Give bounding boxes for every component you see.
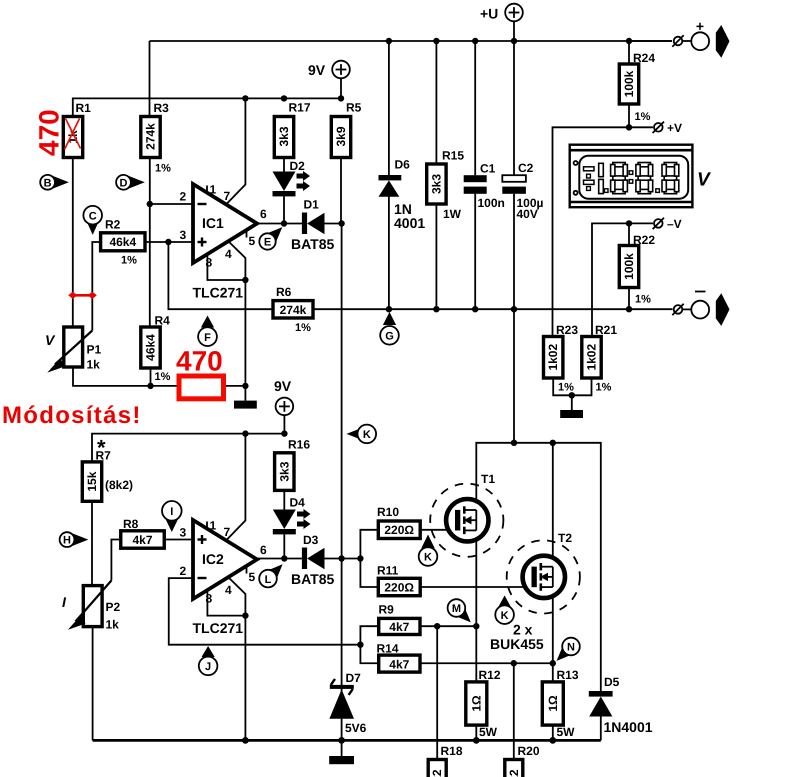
wire: 9V rail y=98.4 bbox=[73, 98, 341, 116]
node dot R10/R11 split bbox=[357, 555, 363, 561]
svg-text:R18: R18 bbox=[441, 744, 463, 758]
node dot minus rail at R15 bbox=[433, 306, 439, 312]
node K at T2 gate bbox=[495, 596, 514, 625]
diode D1 BAT85 bbox=[291, 198, 335, 253]
svg-text:(8k2): (8k2) bbox=[105, 478, 133, 492]
svg-text:40V: 40V bbox=[517, 207, 538, 221]
ground (D7) bbox=[329, 740, 354, 764]
bottom source rail bbox=[93, 739, 601, 742]
svg-text:V: V bbox=[697, 170, 711, 191]
svg-text:R10: R10 bbox=[377, 505, 399, 519]
svg-text:220Ω: 220Ω bbox=[384, 581, 414, 595]
svg-text:1%: 1% bbox=[635, 111, 651, 123]
svg-text:C1: C1 bbox=[480, 162, 496, 176]
wire: D2 bottom to output bbox=[283, 196, 285, 224]
capacitor C2 bbox=[502, 161, 543, 221]
svg-text:2: 2 bbox=[180, 190, 187, 204]
svg-text:D7: D7 bbox=[346, 671, 362, 685]
node dot rail at D7 bbox=[338, 737, 345, 744]
svg-text:F: F bbox=[204, 332, 211, 344]
node dot R9/R14 split bbox=[357, 642, 363, 648]
red note 470 vertical (over R1) bbox=[34, 109, 65, 156]
svg-text:4: 4 bbox=[225, 583, 232, 597]
node dot drain rail at +U line bbox=[511, 440, 517, 446]
svg-text:4001: 4001 bbox=[394, 215, 425, 231]
svg-text:Módosítás!: Módosítás! bbox=[2, 402, 142, 429]
red jumper wire (modification) bbox=[68, 292, 97, 299]
svg-text:5: 5 bbox=[249, 570, 256, 584]
node dot D1/R5/K-line bbox=[338, 220, 344, 226]
svg-text:1%: 1% bbox=[295, 322, 311, 334]
arrow - output bbox=[716, 293, 730, 326]
wire: R7 bottom to P2 bbox=[91, 501, 93, 585]
wire: R17 bottom to D2 bbox=[283, 157, 285, 172]
svg-text:1k: 1k bbox=[87, 358, 101, 372]
wire: C1 bottom bbox=[474, 194, 476, 309]
svg-text:R17: R17 bbox=[289, 101, 311, 115]
svg-text:1: 1 bbox=[210, 183, 217, 197]
svg-text:3k9: 3k9 bbox=[334, 126, 348, 146]
red X over R1 value bbox=[65, 119, 81, 150]
wire: R3 bottom to pin2 junction to R4 bbox=[149, 157, 151, 327]
resistor R9 bbox=[379, 603, 421, 635]
svg-text:E: E bbox=[264, 237, 271, 249]
node dot R9/R18 line bbox=[434, 623, 440, 629]
resistor R24 bbox=[619, 51, 655, 123]
svg-text:D1: D1 bbox=[304, 198, 320, 212]
svg-text:TLC271: TLC271 bbox=[193, 285, 244, 301]
wire: IC1 pin4 bbox=[229, 242, 246, 281]
svg-text:274k: 274k bbox=[144, 123, 158, 150]
svg-text:1k02: 1k02 bbox=[546, 344, 560, 371]
wire: IC2 output to D3 bbox=[257, 558, 302, 560]
wire: minus rail y=309.2 bbox=[313, 308, 673, 310]
node dot -V bbox=[626, 220, 632, 226]
resistor R8 bbox=[121, 517, 165, 548]
wire: plus output stub bbox=[629, 40, 672, 42]
svg-text:–V: –V bbox=[667, 217, 682, 231]
svg-text:470: 470 bbox=[34, 109, 65, 156]
svg-text:C: C bbox=[89, 210, 97, 222]
resistor R22 bbox=[619, 233, 655, 306]
display digit 8 #1 bbox=[611, 163, 628, 194]
terminal - big circle bbox=[691, 292, 709, 319]
node L bbox=[259, 564, 282, 587]
wire: pins8-4 down to ground junction bbox=[244, 280, 246, 386]
resistor R7 bbox=[82, 435, 133, 501]
svg-text:4k7: 4k7 bbox=[389, 657, 409, 671]
transistor T1 BUK455 bbox=[430, 472, 503, 557]
wire: R8 left to P2 wiper bbox=[111, 540, 120, 581]
wire: P2 bottom down left side bbox=[92, 627, 94, 741]
resistor R21 bbox=[582, 323, 618, 394]
svg-text:G: G bbox=[385, 331, 394, 343]
node dot drain rail at T2 bbox=[550, 440, 556, 446]
svg-text:15k: 15k bbox=[85, 471, 99, 491]
node D bbox=[116, 175, 145, 190]
resistor R6 bbox=[273, 285, 313, 334]
node dot IC2 pins 8-4 bbox=[242, 612, 248, 618]
wire: split up to R9 bbox=[360, 626, 378, 645]
wire: R15 bottom bbox=[435, 204, 437, 309]
wire: IC2 pins8-4 down to bottom rail bbox=[244, 616, 246, 741]
node dot rail at IC2 pin7 bbox=[242, 430, 248, 436]
svg-text:R8: R8 bbox=[123, 517, 139, 531]
wire: R22 top bbox=[628, 223, 630, 245]
svg-text:4: 4 bbox=[225, 247, 232, 261]
wire: +V run left and down to R23 bbox=[553, 127, 654, 336]
svg-text:2k2: 2k2 bbox=[507, 769, 521, 777]
terminal +V open circle bbox=[653, 121, 682, 135]
resistor R17 bbox=[274, 101, 311, 158]
wire: R2 left to P1 wiper via corner bbox=[92, 242, 100, 331]
op-amp IC1 bbox=[180, 183, 268, 301]
svg-text:P2: P2 bbox=[106, 600, 121, 614]
wire: +U top rail y=41 bbox=[150, 40, 673, 42]
svg-text:8: 8 bbox=[206, 256, 213, 270]
wire: K-line node to R10/R11 split bbox=[342, 558, 361, 560]
wire: R4 bottom stub bbox=[150, 368, 152, 386]
wire: R16 bottom to D4 bbox=[283, 490, 285, 509]
terminal -V open circle bbox=[653, 217, 682, 231]
svg-text:1%: 1% bbox=[155, 371, 171, 383]
wire: R18 drop line bbox=[436, 626, 438, 760]
svg-text:1%: 1% bbox=[121, 255, 137, 267]
svg-text:R2: R2 bbox=[105, 218, 121, 232]
resistor R5 bbox=[331, 101, 361, 158]
wire: D4 bottom to IC2 output bbox=[283, 534, 285, 558]
resistor R13 bbox=[542, 668, 579, 739]
svg-text:R6: R6 bbox=[276, 285, 292, 299]
svg-text:K: K bbox=[501, 610, 509, 622]
node dot IC1 output bbox=[281, 220, 287, 226]
wire: D5 bottom to rail bbox=[600, 717, 602, 741]
svg-text:BUK455: BUK455 bbox=[490, 636, 544, 652]
svg-text:R9: R9 bbox=[379, 603, 395, 617]
ground (R23/R21) bbox=[560, 395, 583, 418]
node N bbox=[557, 638, 580, 661]
svg-text:3k3: 3k3 bbox=[277, 461, 291, 481]
wire: IC2 pin8 bbox=[207, 590, 245, 616]
wire: R23 R21 bottoms to ground bbox=[553, 378, 591, 395]
node M bbox=[448, 599, 471, 622]
wire: D3 right to K-line node bbox=[325, 558, 342, 560]
wire: IC1 pin2 bbox=[150, 203, 193, 205]
display digit 8 #2 bbox=[636, 163, 653, 194]
LED D4 bbox=[273, 496, 311, 535]
terminal + open circle bbox=[672, 35, 691, 46]
svg-text:D6: D6 bbox=[395, 158, 411, 172]
node dot pin3 junction bbox=[165, 239, 171, 245]
LED D2 bbox=[273, 159, 311, 196]
node dot ground junction bbox=[242, 383, 248, 389]
wire: R2 right to IC1 pin3 bbox=[145, 241, 193, 243]
svg-text:+U: +U bbox=[480, 6, 498, 22]
svg-text:N: N bbox=[567, 642, 575, 654]
wire: R11 right to T2 gate bbox=[420, 586, 531, 588]
svg-text:46k4: 46k4 bbox=[109, 235, 136, 249]
svg-text:+: + bbox=[696, 18, 704, 34]
node K at T1 gate bbox=[419, 535, 438, 566]
red note Modositas! bbox=[2, 402, 142, 429]
wire: IC1 pin8 bbox=[207, 254, 245, 280]
display annunciators bbox=[584, 167, 595, 191]
svg-text:3k3: 3k3 bbox=[277, 126, 291, 146]
diode D3 BAT85 bbox=[291, 533, 335, 587]
wire: T2 source down to R13 bbox=[552, 598, 554, 682]
svg-text:BAT85: BAT85 bbox=[291, 571, 335, 587]
wire: IC1 pin7 to 9V rail bbox=[227, 98, 246, 204]
wire: IC2 pin7 up to rail bbox=[227, 434, 246, 540]
potentiometer P1 bbox=[45, 327, 102, 373]
wire: drain rail y=442.8 bbox=[476, 443, 601, 691]
wire: K vertical line from D1 node down to D3 node bbox=[341, 224, 343, 687]
wire: C2 bottom to minus rail and on to drain rail bbox=[513, 194, 515, 443]
wire: D7 bottom to rail bbox=[341, 686, 343, 740]
red resistor 470 (modification) bbox=[179, 376, 224, 399]
wire: R1 bottom to P1 top bbox=[72, 158, 74, 327]
svg-text:BAT85: BAT85 bbox=[291, 236, 335, 252]
svg-text:IC1: IC1 bbox=[202, 215, 224, 231]
node dot rail at R13 bbox=[549, 737, 556, 744]
svg-text:3: 3 bbox=[180, 526, 187, 540]
svg-text:IC2: IC2 bbox=[202, 551, 224, 567]
svg-text:J: J bbox=[205, 661, 211, 673]
svg-text:2k2: 2k2 bbox=[430, 769, 444, 777]
display colon bbox=[629, 171, 659, 193]
svg-text:2: 2 bbox=[180, 564, 187, 578]
wire: R14 right to T2 source line bbox=[420, 662, 553, 664]
node dot minus rail at C1 bbox=[472, 306, 478, 312]
svg-text:R11: R11 bbox=[377, 564, 399, 578]
svg-text:5W: 5W bbox=[479, 725, 498, 739]
node H bbox=[60, 532, 89, 547]
wire: -V run bbox=[592, 223, 653, 336]
svg-text:R1: R1 bbox=[76, 101, 92, 115]
wire: R12 bottom bbox=[475, 725, 477, 740]
transistor T2 BUK455 bbox=[507, 531, 580, 614]
node dot R20 drop bbox=[511, 660, 517, 666]
svg-text:5V6: 5V6 bbox=[345, 721, 367, 735]
wire: R24 bottom to +V bbox=[628, 104, 630, 127]
svg-text:1Ω: 1Ω bbox=[469, 695, 483, 712]
svg-text:M: M bbox=[452, 603, 461, 615]
supply 9V (IC1) bbox=[308, 61, 350, 99]
svg-text:H: H bbox=[63, 535, 71, 547]
node dot rail at IC2 pins bbox=[242, 737, 249, 744]
red note 470 horizontal (above red resistor) bbox=[176, 346, 223, 377]
svg-text:1Ω: 1Ω bbox=[546, 695, 560, 712]
svg-text:100k: 100k bbox=[622, 70, 636, 97]
wire: R15 top drop bbox=[435, 41, 437, 164]
node dot R14 at T2 source bbox=[550, 660, 556, 666]
wire: R5 bottom to node bbox=[340, 157, 342, 224]
wire: split down to R11 bbox=[360, 559, 378, 588]
svg-text:9V: 9V bbox=[308, 62, 326, 78]
svg-text:100k: 100k bbox=[622, 253, 636, 280]
wire: R3 top drop from rail bbox=[149, 41, 151, 116]
capacitor C1 bbox=[464, 162, 505, 211]
arrow + output bbox=[716, 25, 730, 58]
terminal + big circle bbox=[691, 18, 709, 50]
node dot top rail at C2/+U bbox=[511, 38, 517, 44]
svg-text:1k: 1k bbox=[106, 618, 120, 632]
wire: R13 bottom bbox=[552, 725, 554, 740]
svg-text:R5: R5 bbox=[346, 101, 362, 115]
svg-text:46k4: 46k4 bbox=[144, 334, 158, 361]
svg-text:C2: C2 bbox=[518, 161, 534, 175]
wire: P1 bottom to F-ground run bbox=[73, 367, 179, 386]
svg-text:R20: R20 bbox=[518, 744, 540, 758]
resistor R12 bbox=[466, 668, 501, 739]
wire: D6 top drop bbox=[388, 41, 390, 175]
resistor R23 bbox=[544, 323, 579, 394]
node G bbox=[380, 312, 399, 345]
svg-text:100n: 100n bbox=[478, 196, 505, 210]
svg-text:1%: 1% bbox=[635, 294, 651, 306]
wire: R10 right to T1 gate bbox=[420, 529, 455, 531]
resistor R11 bbox=[377, 564, 420, 596]
node E bbox=[259, 227, 282, 250]
wire: split down to R14 bbox=[360, 645, 378, 664]
svg-text:D: D bbox=[120, 177, 128, 189]
resistor R2 bbox=[101, 218, 145, 267]
node dot top rail at R24 bbox=[626, 38, 632, 44]
resistor R3 bbox=[141, 101, 171, 175]
node dot rail at R12 bbox=[473, 737, 480, 744]
svg-text:T2: T2 bbox=[558, 531, 572, 545]
svg-text:K: K bbox=[363, 429, 371, 441]
node dot rail at R16 bbox=[281, 430, 287, 436]
resistor R1 bbox=[63, 101, 91, 158]
svg-text:1N4001: 1N4001 bbox=[604, 719, 653, 735]
resistor R4 bbox=[141, 314, 171, 384]
resistor R10 bbox=[377, 505, 420, 539]
resistor R14 bbox=[377, 642, 421, 673]
node dot minus rail at R22 bbox=[626, 306, 632, 312]
node dot top rail at C1 bbox=[472, 38, 478, 44]
svg-text:D3: D3 bbox=[303, 533, 319, 547]
svg-text:D4: D4 bbox=[290, 496, 306, 510]
svg-text:3: 3 bbox=[180, 228, 187, 242]
wire: C1 top drop bbox=[474, 41, 476, 175]
svg-text:1: 1 bbox=[210, 519, 217, 533]
supply +U bbox=[480, 4, 523, 41]
wire: T2 drain drop bbox=[552, 443, 554, 556]
node dot pins 8-4 bbox=[242, 277, 248, 283]
node dot +V bbox=[626, 124, 632, 130]
svg-text:4k7: 4k7 bbox=[132, 533, 152, 547]
display voltmeter module bbox=[570, 145, 711, 208]
wire: R9 right to T1 source line bbox=[420, 625, 476, 627]
svg-text:T1: T1 bbox=[481, 472, 495, 486]
svg-text:B: B bbox=[44, 177, 52, 189]
ground (IC1 divider) bbox=[234, 386, 257, 409]
wire: C2 top drop bbox=[513, 41, 515, 175]
svg-text:5W: 5W bbox=[557, 725, 576, 739]
node dot 9V rail at R17 bbox=[281, 95, 287, 101]
wire: pin3 junction down to R6 level bbox=[168, 242, 273, 309]
wire: IC2 pin4 bbox=[229, 578, 246, 616]
label 2x BUK455 bbox=[490, 622, 544, 653]
node dot R9 at T1 source bbox=[473, 623, 479, 629]
wire: R8 right to IC2 pin3 bbox=[164, 539, 193, 541]
wire: D6 bottom to minus rail bbox=[388, 197, 390, 310]
svg-text:K: K bbox=[424, 552, 432, 564]
svg-text:1%: 1% bbox=[155, 163, 171, 175]
terminal - open circle bbox=[672, 304, 691, 315]
display digit 8 #3 bbox=[662, 163, 679, 194]
display digit 1 bbox=[599, 163, 608, 193]
svg-text:R13: R13 bbox=[557, 668, 579, 682]
svg-text:R3: R3 bbox=[154, 101, 170, 115]
node dot R4 bottom bbox=[147, 383, 153, 389]
svg-text:1k02: 1k02 bbox=[585, 344, 599, 371]
svg-text:R15: R15 bbox=[442, 149, 464, 163]
wire: R20 drop line bbox=[513, 663, 515, 760]
node B bbox=[40, 175, 69, 190]
node dot top rail at D6 bbox=[386, 38, 392, 44]
resistor R16 bbox=[275, 438, 311, 491]
svg-text:+V: +V bbox=[667, 121, 682, 135]
svg-text:6: 6 bbox=[260, 207, 267, 221]
diode D5 bbox=[589, 675, 653, 735]
node C bbox=[83, 206, 102, 235]
wire: R24 top from rail bbox=[628, 41, 630, 64]
op-amp IC2 bbox=[180, 519, 268, 637]
wire: red resistor right to ground node bbox=[224, 385, 245, 387]
wire: IC2 pin2 loop bbox=[169, 578, 361, 645]
svg-text:9V: 9V bbox=[274, 378, 292, 394]
svg-text:4k7: 4k7 bbox=[389, 620, 409, 634]
node K pointing left at K-line bbox=[347, 425, 377, 444]
node dot IC2 output / D4 bbox=[281, 555, 287, 561]
wire: T1 source down to R12 bbox=[475, 541, 477, 682]
node F bbox=[198, 316, 217, 347]
diode D6 bbox=[379, 158, 426, 232]
svg-text:I: I bbox=[170, 506, 173, 518]
svg-text:1%: 1% bbox=[596, 382, 612, 394]
svg-text:5: 5 bbox=[249, 234, 256, 248]
node dot pin2 junction bbox=[147, 201, 153, 207]
svg-text:D2: D2 bbox=[290, 159, 306, 173]
node J bbox=[199, 646, 218, 675]
resistor R15 bbox=[427, 149, 465, 222]
node dot R23/R21 ground bbox=[569, 392, 575, 398]
svg-text:P1: P1 bbox=[87, 343, 102, 357]
node dot 9V rail at R5 bbox=[338, 95, 344, 101]
wire: R22 bottom bbox=[628, 288, 630, 310]
node dot 9V rail at IC1 pin7 bbox=[242, 95, 248, 101]
wire: split up to R10 bbox=[360, 530, 378, 559]
svg-text:R16: R16 bbox=[288, 438, 310, 452]
node dot minus rail at C2 bbox=[511, 306, 517, 312]
svg-text:L: L bbox=[265, 574, 272, 586]
wire: IC2 supply rail y=433.6 bbox=[92, 434, 284, 462]
potentiometer P2 bbox=[62, 581, 121, 632]
node I bbox=[162, 501, 182, 532]
svg-text:3k3: 3k3 bbox=[429, 174, 443, 194]
svg-text:220Ω: 220Ω bbox=[384, 523, 414, 537]
supply 9V (IC2) bbox=[274, 378, 293, 434]
svg-text:1W: 1W bbox=[443, 207, 462, 221]
svg-text:7: 7 bbox=[224, 189, 231, 203]
svg-text:6: 6 bbox=[260, 543, 267, 557]
wire: IC1 output to D1 bbox=[257, 223, 302, 225]
svg-text:274k: 274k bbox=[280, 303, 307, 317]
svg-text:1%: 1% bbox=[558, 382, 574, 394]
resistor R20 bbox=[505, 744, 540, 777]
